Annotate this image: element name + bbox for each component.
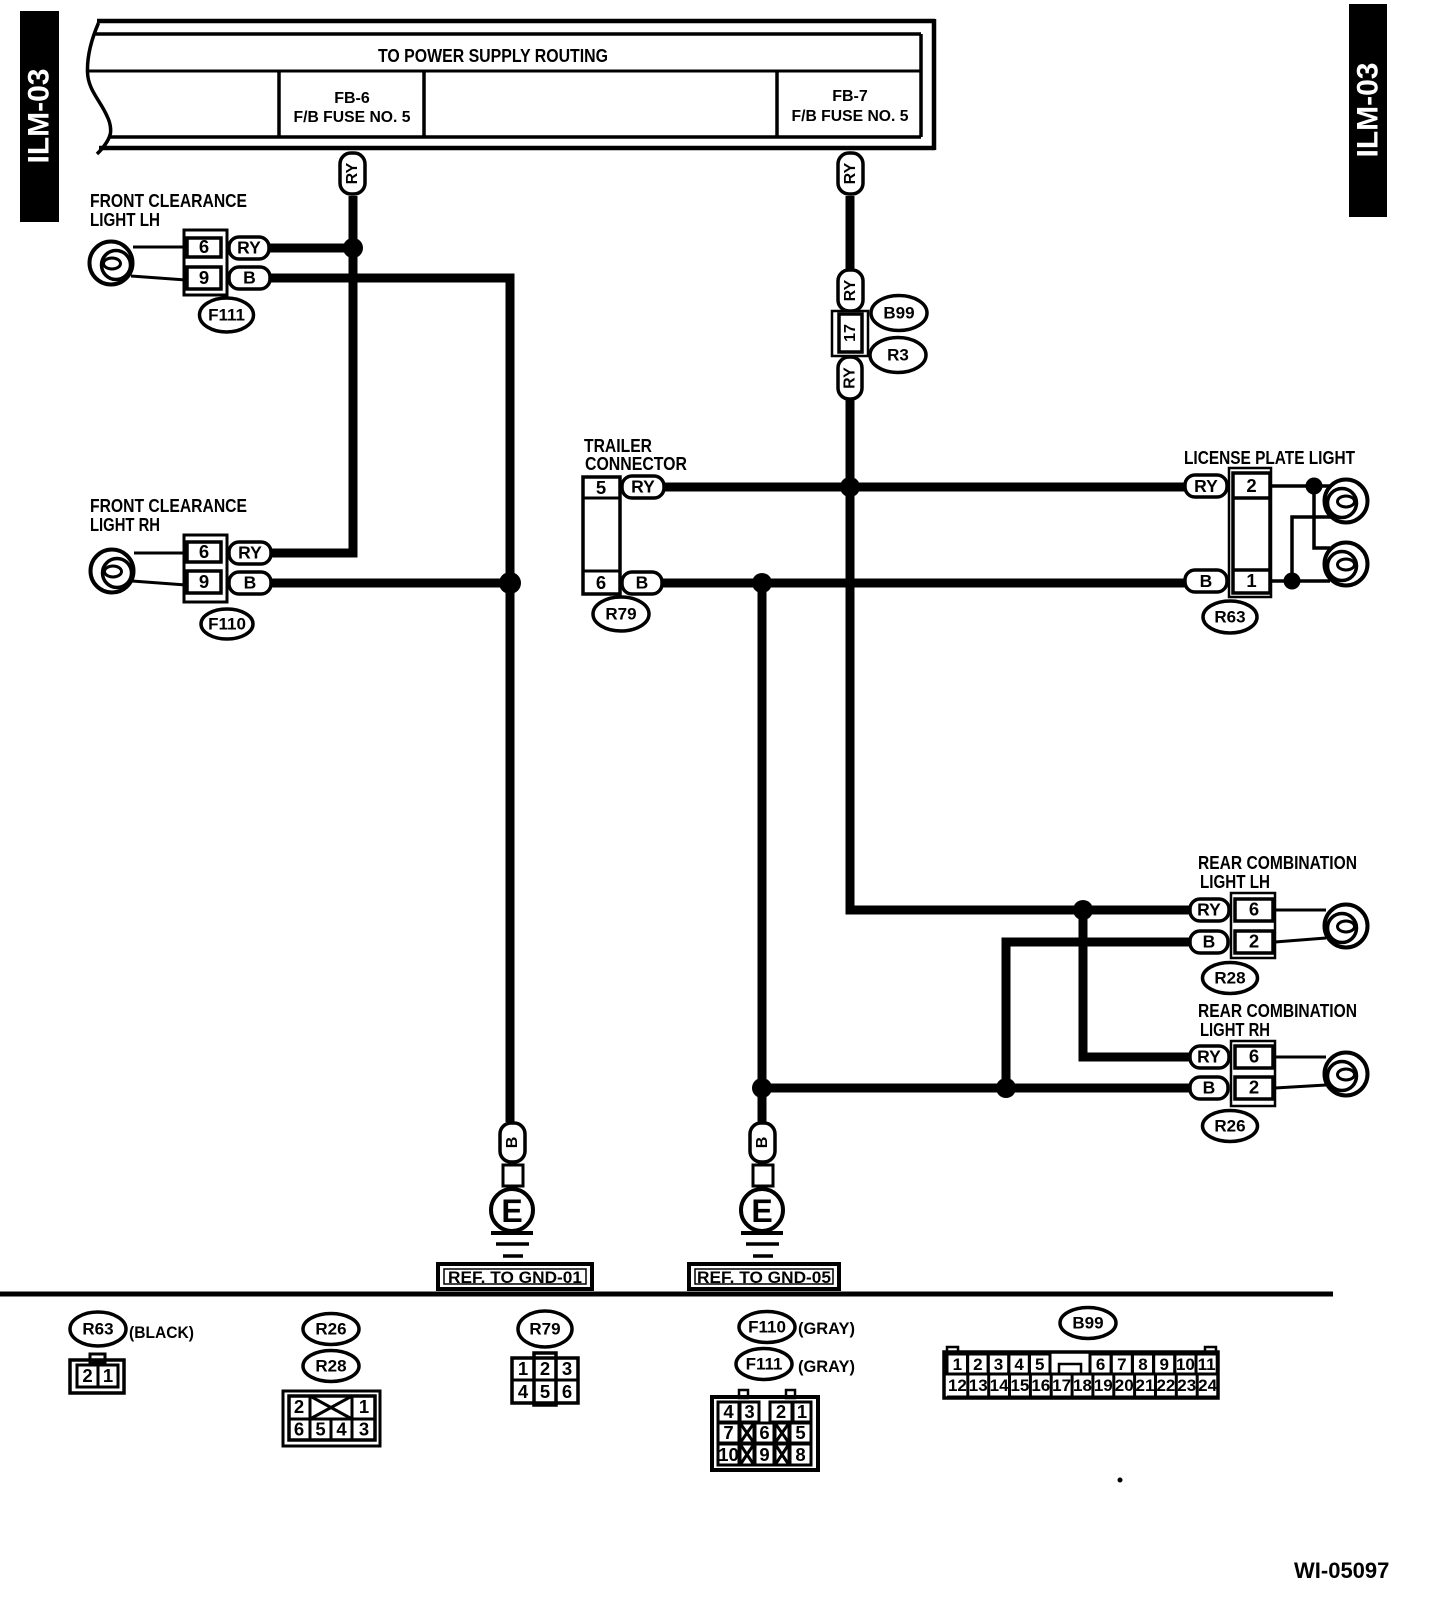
svg-text:REAR COMBINATION: REAR COMBINATION xyxy=(1198,1001,1357,1021)
svg-text:10: 10 xyxy=(718,1444,739,1465)
svg-text:B: B xyxy=(1200,571,1213,591)
svg-text:20: 20 xyxy=(1115,1376,1134,1395)
svg-text:B: B xyxy=(1203,932,1216,952)
svg-text:CONNECTOR: CONNECTOR xyxy=(585,454,687,474)
svg-text:TRAILER: TRAILER xyxy=(584,436,652,456)
svg-text:RY: RY xyxy=(238,543,262,563)
svg-text:9: 9 xyxy=(759,1444,769,1465)
svg-text:R79: R79 xyxy=(605,605,636,624)
svg-text:5: 5 xyxy=(1035,1355,1044,1374)
svg-text:4: 4 xyxy=(518,1381,529,1402)
svg-text:7: 7 xyxy=(723,1422,733,1443)
svg-text:9: 9 xyxy=(199,267,209,288)
svg-text:3: 3 xyxy=(994,1355,1003,1374)
svg-text:F/B FUSE NO. 5: F/B FUSE NO. 5 xyxy=(294,109,411,126)
svg-text:1: 1 xyxy=(1246,570,1256,591)
svg-text:R28: R28 xyxy=(1214,969,1245,988)
svg-text:WI-05097: WI-05097 xyxy=(1294,1558,1389,1583)
svg-text:2: 2 xyxy=(294,1396,304,1417)
svg-text:B: B xyxy=(243,268,256,288)
svg-text:4: 4 xyxy=(336,1419,347,1440)
svg-text:19: 19 xyxy=(1094,1376,1113,1395)
svg-text:5: 5 xyxy=(315,1419,325,1440)
svg-text:1: 1 xyxy=(953,1355,962,1374)
svg-text:15: 15 xyxy=(1010,1376,1029,1395)
svg-text:F111: F111 xyxy=(746,1355,783,1374)
svg-text:REF. TO GND-01: REF. TO GND-01 xyxy=(448,1269,582,1287)
svg-text:F/B FUSE NO. 5: F/B FUSE NO. 5 xyxy=(792,108,909,125)
svg-text:3: 3 xyxy=(744,1401,754,1422)
svg-text:6: 6 xyxy=(199,236,209,257)
svg-text:1: 1 xyxy=(797,1401,807,1422)
svg-text:FB-7: FB-7 xyxy=(832,88,868,105)
svg-text:ILM-03: ILM-03 xyxy=(1352,63,1385,158)
svg-text:5: 5 xyxy=(540,1381,550,1402)
svg-text:R26: R26 xyxy=(1214,1117,1245,1136)
svg-text:16: 16 xyxy=(1031,1376,1050,1395)
svg-text:FB-6: FB-6 xyxy=(334,90,370,107)
svg-text:RY: RY xyxy=(237,238,261,258)
svg-text:B: B xyxy=(244,573,257,593)
svg-text:B: B xyxy=(1203,1078,1216,1098)
svg-text:6: 6 xyxy=(596,572,606,593)
svg-text:REAR COMBINATION: REAR COMBINATION xyxy=(1198,853,1357,873)
svg-text:8: 8 xyxy=(1138,1355,1147,1374)
svg-text:2: 2 xyxy=(776,1401,786,1422)
svg-text:2: 2 xyxy=(540,1358,550,1379)
svg-text:2: 2 xyxy=(1246,475,1256,496)
svg-text:R79: R79 xyxy=(529,1320,560,1339)
svg-text:(BLACK): (BLACK) xyxy=(129,1323,194,1342)
svg-text:LIGHT LH: LIGHT LH xyxy=(90,210,160,230)
svg-text:1: 1 xyxy=(518,1358,528,1379)
svg-text:9: 9 xyxy=(199,571,209,592)
svg-text:17: 17 xyxy=(1052,1376,1071,1395)
svg-text:1: 1 xyxy=(103,1365,113,1386)
svg-text:R63: R63 xyxy=(82,1320,113,1339)
svg-text:4: 4 xyxy=(723,1401,734,1422)
svg-text:13: 13 xyxy=(969,1376,988,1395)
svg-text:17: 17 xyxy=(842,324,859,342)
svg-text:RY: RY xyxy=(842,162,859,184)
svg-text:5: 5 xyxy=(596,477,606,498)
svg-text:3: 3 xyxy=(562,1358,572,1379)
svg-text:RY: RY xyxy=(842,279,859,301)
svg-text:LIGHT LH: LIGHT LH xyxy=(1200,872,1270,892)
svg-text:2: 2 xyxy=(82,1365,92,1386)
svg-text:FRONT CLEARANCE: FRONT CLEARANCE xyxy=(90,496,247,516)
svg-text:4: 4 xyxy=(1014,1355,1024,1374)
svg-text:R28: R28 xyxy=(315,1357,346,1376)
svg-text:22: 22 xyxy=(1156,1376,1175,1395)
svg-text:F110: F110 xyxy=(748,1318,786,1337)
svg-text:21: 21 xyxy=(1136,1376,1155,1395)
svg-text:F110: F110 xyxy=(208,615,246,634)
svg-text:RY: RY xyxy=(344,162,361,184)
svg-text:14: 14 xyxy=(990,1376,1009,1395)
svg-text:B: B xyxy=(754,1137,771,1149)
svg-text:12: 12 xyxy=(948,1376,967,1395)
svg-text:2: 2 xyxy=(1249,1077,1259,1098)
svg-text:11: 11 xyxy=(1198,1355,1216,1374)
svg-text:6: 6 xyxy=(1096,1355,1105,1374)
svg-text:R63: R63 xyxy=(1214,608,1245,627)
svg-text:ILM-03: ILM-03 xyxy=(23,69,56,164)
svg-text:LIGHT RH: LIGHT RH xyxy=(1200,1020,1270,1040)
svg-text:1: 1 xyxy=(359,1396,369,1417)
svg-text:6: 6 xyxy=(562,1381,572,1402)
svg-text:(GRAY): (GRAY) xyxy=(798,1357,855,1376)
svg-text:TO POWER SUPPLY ROUTING: TO POWER SUPPLY ROUTING xyxy=(378,46,608,66)
svg-text:23: 23 xyxy=(1177,1376,1196,1395)
svg-text:10: 10 xyxy=(1176,1355,1195,1374)
svg-text:8: 8 xyxy=(795,1444,805,1465)
svg-text:RY: RY xyxy=(631,477,655,497)
svg-text:5: 5 xyxy=(795,1422,805,1443)
svg-text:2: 2 xyxy=(973,1355,982,1374)
svg-text:6: 6 xyxy=(1249,899,1259,920)
svg-text:7: 7 xyxy=(1117,1355,1126,1374)
svg-text:LIGHT RH: LIGHT RH xyxy=(90,515,160,535)
svg-text:RY: RY xyxy=(842,367,859,389)
svg-text:RY: RY xyxy=(1197,900,1221,920)
svg-text:B: B xyxy=(636,573,649,593)
svg-text:6: 6 xyxy=(759,1422,769,1443)
svg-text:9: 9 xyxy=(1159,1355,1168,1374)
svg-text:B: B xyxy=(504,1137,521,1149)
svg-text:FRONT CLEARANCE: FRONT CLEARANCE xyxy=(90,191,247,211)
svg-text:6: 6 xyxy=(199,541,209,562)
svg-text:E: E xyxy=(501,1193,522,1229)
svg-text:REF. TO GND-05: REF. TO GND-05 xyxy=(697,1269,831,1287)
svg-text:18: 18 xyxy=(1073,1376,1092,1395)
svg-text:(GRAY): (GRAY) xyxy=(798,1319,855,1338)
svg-text:E: E xyxy=(751,1193,772,1229)
svg-text:RY: RY xyxy=(1197,1047,1221,1067)
svg-text:6: 6 xyxy=(1249,1046,1259,1067)
svg-text:R26: R26 xyxy=(315,1320,346,1339)
svg-text:B99: B99 xyxy=(1072,1314,1103,1333)
svg-text:6: 6 xyxy=(294,1419,304,1440)
svg-text:2: 2 xyxy=(1249,931,1259,952)
svg-text:R3: R3 xyxy=(887,346,909,365)
svg-text:3: 3 xyxy=(359,1419,369,1440)
svg-text:LICENSE PLATE LIGHT: LICENSE PLATE LIGHT xyxy=(1184,448,1355,468)
svg-text:RY: RY xyxy=(1194,476,1218,496)
svg-text:F111: F111 xyxy=(208,306,245,325)
svg-text:B99: B99 xyxy=(883,304,914,323)
svg-text:24: 24 xyxy=(1198,1376,1217,1395)
